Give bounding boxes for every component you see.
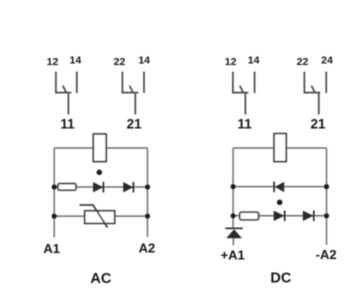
wire right rail DC [326, 148, 328, 245]
contact common 11 stub [67, 93, 69, 115]
svg-text:AC: AC [90, 271, 111, 287]
indicator dot [97, 170, 103, 176]
svg-text:24: 24 [321, 55, 333, 67]
contact armature tick (DC) [240, 86, 244, 93]
contact CO 11-12-14 labels [47, 55, 82, 132]
diode V2 [123, 182, 133, 193]
relay coil K1 [93, 134, 106, 162]
diode V1 [93, 182, 103, 193]
contact 24 NO leg [143, 72, 145, 93]
wire left rail DC [232, 148, 234, 228]
relay coil K2 [274, 134, 286, 162]
svg-text:+A1: +A1 [221, 247, 245, 262]
node rung2 left junction [231, 213, 236, 218]
contact armature tick (DC) [311, 86, 315, 93]
svg-text:12: 12 [225, 56, 237, 68]
indicator dot (DC) [277, 200, 283, 206]
svg-text:-A2: -A2 [316, 247, 337, 262]
contact armature tick [63, 86, 67, 93]
contact 24 NO leg (DC) [325, 72, 327, 93]
svg-text:11: 11 [237, 117, 252, 132]
contact 22 NC leg (DC) [304, 72, 320, 93]
contact common 21 stub (DC) [318, 93, 320, 115]
contact CO 21-22-14 labels [114, 55, 151, 132]
wire top rung AC [54, 147, 147, 149]
svg-text:21: 21 [310, 117, 326, 132]
svg-text:DC: DC [270, 271, 291, 287]
freewheel diode V3 [274, 182, 284, 193]
node A1-rung3 junction [52, 214, 57, 219]
svg-text:12: 12 [47, 56, 59, 68]
node A1-rung2 junction [52, 184, 57, 189]
svg-text:22: 22 [297, 56, 309, 68]
node rung1 right junction [324, 184, 329, 189]
wire middle rung AC [54, 186, 147, 188]
svg-text:14: 14 [138, 55, 150, 67]
contact CO 11-12-14 labels (DC) [225, 55, 260, 132]
wire right rail AC [147, 148, 149, 237]
diode V5 [303, 211, 314, 222]
node A2-rung2 junction [145, 184, 150, 189]
resistor R1 [58, 184, 76, 191]
contact common 11 stub (DC) [244, 93, 246, 115]
contact CO 21-22-24 labels (DC) [297, 55, 333, 132]
contact common 21 stub [134, 93, 136, 115]
svg-text:22: 22 [114, 56, 126, 68]
svg-text:A2: A2 [139, 240, 156, 255]
svg-text:A1: A1 [43, 241, 60, 256]
resistor R2 [240, 212, 259, 220]
wire bottom rung AC [54, 215, 147, 217]
polarity diode V6 [225, 228, 242, 245]
contact 14 NO leg (DC) [254, 72, 256, 93]
svg-text:21: 21 [127, 117, 143, 132]
contact 12 NC leg [56, 72, 71, 93]
node rung1 left junction [231, 184, 236, 189]
contact 14 NO leg [76, 72, 78, 93]
contact 22 NC leg [122, 72, 138, 93]
node rung2 right junction [324, 213, 329, 218]
contact 12 NC leg (DC) [233, 72, 248, 93]
svg-text:14: 14 [70, 55, 82, 67]
wire rung2 DC [233, 215, 326, 217]
wire top rung DC [233, 147, 326, 149]
wire rung1 DC [233, 186, 326, 188]
varistor RU [80, 205, 115, 228]
diode V4 [274, 211, 285, 222]
node A2-rung3 junction [145, 214, 150, 219]
contact armature tick [130, 86, 134, 93]
svg-text:11: 11 [60, 117, 75, 132]
wire left rail AC [53, 148, 55, 238]
svg-text:14: 14 [248, 55, 260, 67]
